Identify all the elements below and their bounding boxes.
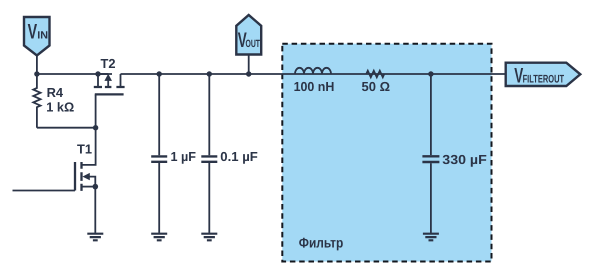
node C2 top junction (207, 71, 212, 76)
T1 gate bar (74, 162, 76, 191)
wire T2 gate down (95, 94, 97, 127)
flag VFILTEROUT (506, 63, 581, 88)
wire T1 source to ground (94, 187, 96, 233)
capacitor C3 330 µF (422, 74, 439, 233)
wire main left segment (37, 73, 112, 75)
node gate junction (93, 125, 98, 130)
node T1 source junction (93, 184, 99, 190)
svg-text:T2: T2 (101, 56, 116, 71)
transistor T1 (75, 162, 95, 191)
T2 body arrow (104, 74, 112, 81)
resistor R4 (33, 74, 40, 128)
svg-text:100 nH: 100 nH (294, 79, 335, 94)
flag VOUT (236, 15, 261, 55)
T2 channel dashes (94, 86, 125, 88)
capacitor C1 1 µF (151, 74, 167, 233)
ground T1 (87, 234, 103, 241)
T1 source lead (82, 186, 95, 188)
svg-text:1 µF: 1 µF (171, 149, 197, 164)
wire T1 gate stub (13, 190, 76, 192)
inductor L1 (295, 68, 331, 74)
node C3 top junction (428, 71, 433, 76)
transistor T2 (94, 74, 125, 95)
wire gate node to T1 drain (82, 128, 95, 165)
svg-text:V: V (28, 21, 37, 44)
T2 drain lead (120, 74, 122, 87)
flag VIN (24, 17, 50, 56)
resistor R5 50 Ω (366, 71, 384, 77)
svg-text:OUT: OUT (246, 38, 261, 50)
node C1 top junction (157, 71, 162, 76)
node VIN junction (34, 71, 39, 76)
ground C2 (201, 234, 217, 241)
svg-text:330 µF: 330 µF (442, 152, 487, 167)
T2 gate bar (95, 93, 124, 95)
wire main right segment (121, 73, 506, 75)
svg-text:50 Ω: 50 Ω (362, 79, 391, 94)
filter box (282, 44, 491, 262)
T2 body wire (98, 73, 108, 75)
ground C1 (151, 234, 167, 241)
svg-text:R4: R4 (47, 85, 64, 100)
wire R4 bottom to gate node (37, 127, 96, 129)
T1 channel dashes (80, 162, 82, 191)
wire VIN stem (36, 56, 38, 75)
ground C3 (423, 234, 439, 241)
capacitor C2 0.1 µF (201, 74, 217, 233)
T2 source lead (97, 74, 99, 87)
svg-text:1 kΩ: 1 kΩ (46, 100, 74, 115)
svg-text:FILTEROUT: FILTEROUT (523, 74, 565, 86)
node VOUT junction (246, 71, 251, 76)
T1 body arrow (82, 173, 89, 180)
svg-text:IN: IN (37, 30, 48, 42)
wire VOUT stem (248, 55, 250, 75)
svg-text:T1: T1 (77, 142, 92, 157)
node T2 source junction (95, 71, 100, 76)
svg-text:0.1 µF: 0.1 µF (220, 149, 258, 164)
svg-text:Фильтр: Фильтр (299, 234, 344, 250)
